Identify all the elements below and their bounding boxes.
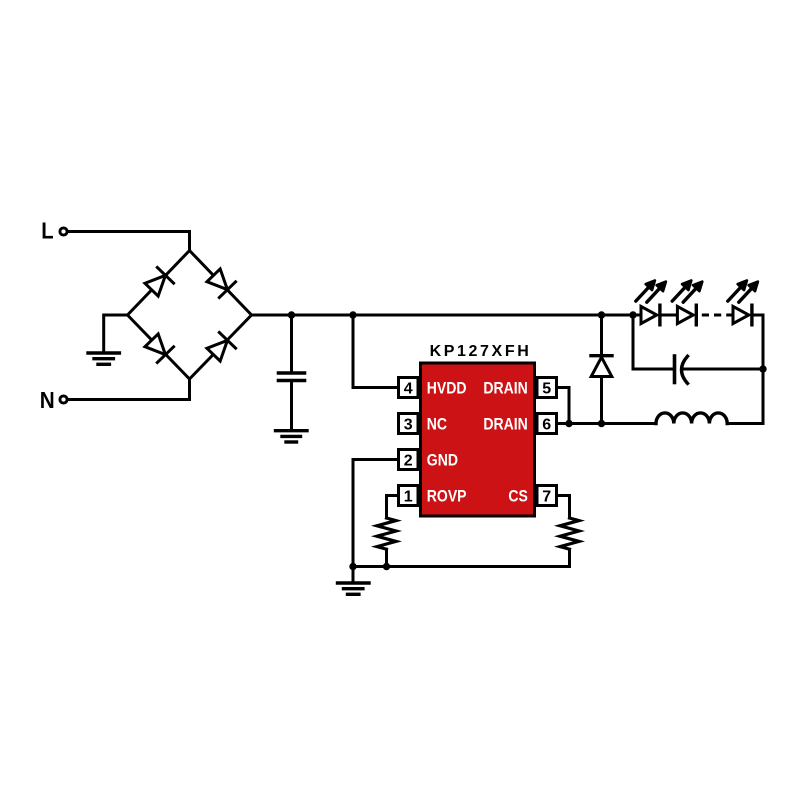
inductor L1 <box>656 413 727 424</box>
junction node (cap/rail) <box>759 365 766 372</box>
wire pin 5 to drain node <box>557 388 570 424</box>
svg-text:DRAIN: DRAIN <box>483 379 527 397</box>
junction node (HVDD tap) <box>349 311 356 318</box>
terminal L <box>41 217 67 244</box>
bridge rectifier diamond wires <box>128 251 252 380</box>
svg-text:DRAIN: DRAIN <box>483 415 527 433</box>
ground (main) <box>338 583 370 594</box>
bridge diode D2 (top to right) <box>205 267 235 297</box>
wire pin 2 (GND) to ground row <box>353 460 399 567</box>
pin box 4 <box>399 378 419 398</box>
LED D6 arrows <box>636 281 666 303</box>
junction node (diode bottom) <box>598 420 605 427</box>
terminal N <box>40 387 67 413</box>
wire R1 to ground row <box>385 549 388 566</box>
bridge diode D4 (bottom to right) <box>205 332 235 362</box>
svg-text:HVDD: HVDD <box>427 379 467 397</box>
pin box 3 <box>399 414 419 434</box>
LED D7 arrows <box>672 281 702 303</box>
wire L to bridge top <box>68 232 189 251</box>
junction node (R1 bottom) <box>383 563 390 570</box>
svg-text:1: 1 <box>404 488 413 505</box>
dashed wire (LED string continues) <box>702 314 733 317</box>
freewheel diode D5 <box>591 315 612 424</box>
wire bus to HVDD pin 4 <box>353 315 397 388</box>
svg-text:6: 6 <box>542 416 551 433</box>
IC U1 body <box>421 363 535 516</box>
wire C2 to right rail <box>684 368 764 371</box>
svg-text:CS: CS <box>508 487 527 505</box>
pin box 1 <box>399 486 419 506</box>
ground (AC side) <box>88 353 119 364</box>
junction node (gnd row left) <box>349 563 356 570</box>
capacitor C1 <box>279 315 305 430</box>
svg-text:4: 4 <box>404 380 413 397</box>
LED D6 <box>641 305 660 325</box>
svg-text:7: 7 <box>542 488 551 505</box>
wire pin 1 (ROVP) to resistor R1 <box>387 496 399 519</box>
capacitor C2 (output, polarized) <box>675 356 688 383</box>
pin box 7 <box>537 486 557 506</box>
wire LED1 to LED2 <box>660 314 678 317</box>
svg-text:NC: NC <box>427 415 447 433</box>
svg-text:2: 2 <box>404 452 413 469</box>
svg-text:GND: GND <box>427 451 458 469</box>
main bus wire (bridge output to LED string) <box>252 314 642 317</box>
junction node (C1 tap) <box>288 311 295 318</box>
junction node (LED branch) <box>629 311 636 318</box>
svg-text:3: 3 <box>404 416 413 433</box>
wire bus to output cap C2 <box>633 315 675 369</box>
pin box 5 <box>537 378 557 398</box>
ground row wire <box>353 565 570 568</box>
bridge diode D3 (left to bottom) <box>143 332 173 362</box>
wire pin 7 (CS) to resistor R2 <box>557 496 570 519</box>
svg-text:5: 5 <box>542 380 551 397</box>
pin box 2 <box>399 450 419 470</box>
junction node (diode top) <box>598 311 605 318</box>
wire R2 to ground row <box>568 549 571 566</box>
wire inductor to right rail <box>727 369 763 424</box>
ground (under C1) <box>276 431 308 442</box>
wire bridge left vertex to ground <box>104 315 128 353</box>
LED D8 <box>733 305 752 325</box>
svg-text:N: N <box>40 387 55 413</box>
junction node (pin5/6) <box>565 420 572 427</box>
pin box 6 <box>537 414 557 434</box>
LED D8 arrows <box>728 281 758 303</box>
resistor R2 <box>560 518 579 549</box>
svg-text:KP127XFH: KP127XFH <box>430 343 532 360</box>
wire pin 6 drain row to inductor <box>557 422 657 425</box>
bridge diode D1 (left to top) <box>143 267 173 297</box>
resistor R1 <box>377 518 396 549</box>
wire ground stem <box>352 567 355 583</box>
LED D7 <box>677 305 696 325</box>
svg-text:ROVP: ROVP <box>427 487 467 505</box>
svg-text:L: L <box>41 217 53 244</box>
wire LED3 to right rail <box>752 315 763 369</box>
wire N to bridge bottom <box>68 379 189 400</box>
